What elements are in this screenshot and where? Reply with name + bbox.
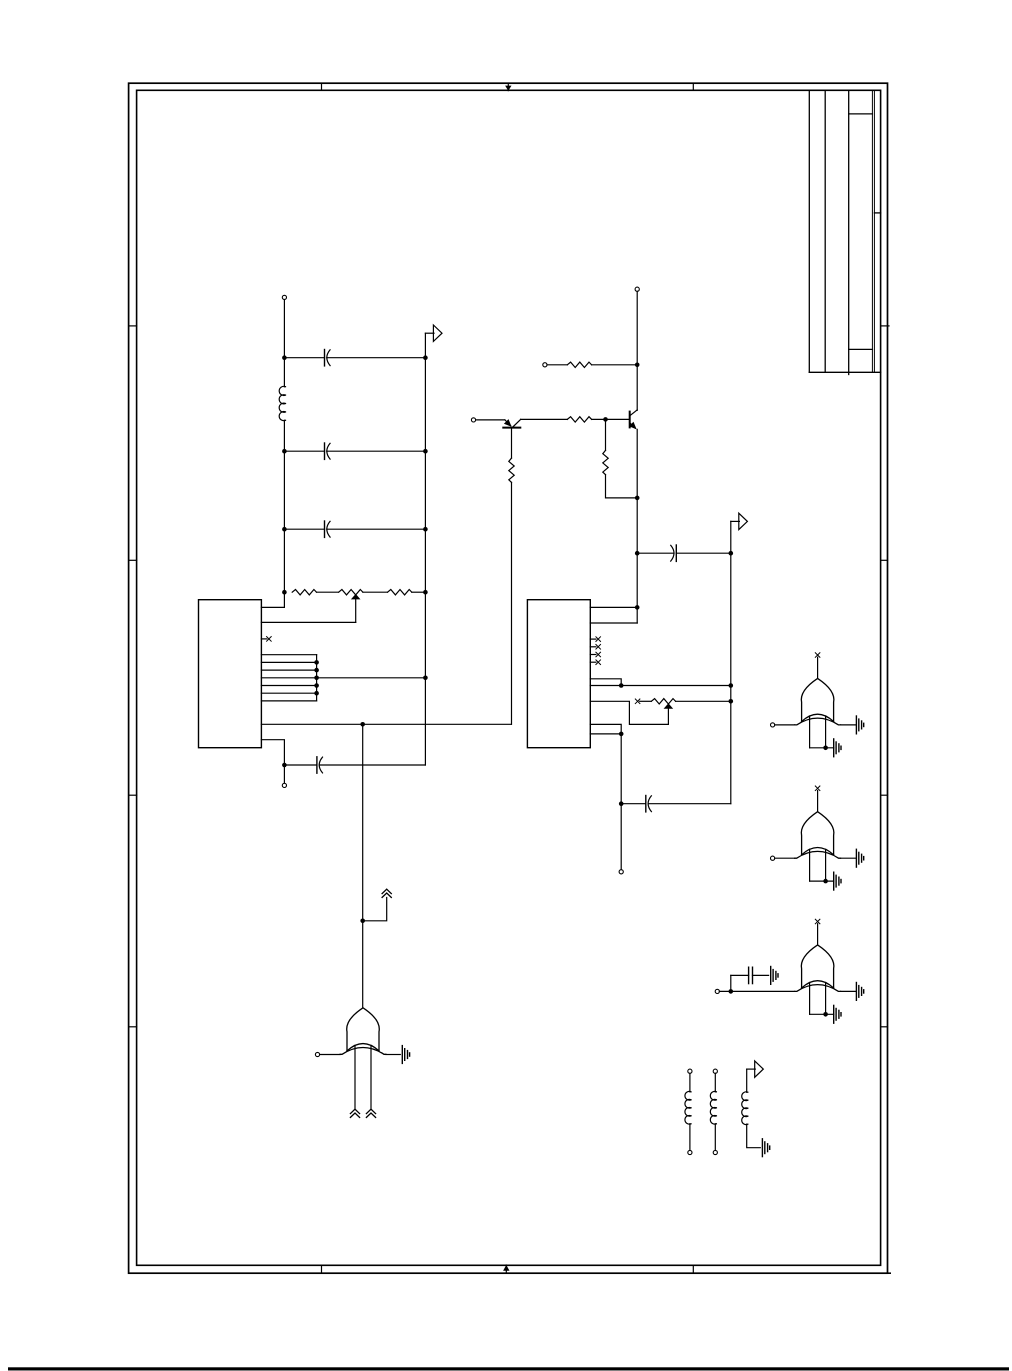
- wire: [412, 591, 426, 593]
- no-connect G4 output: [815, 919, 820, 945]
- wire: [676, 700, 731, 702]
- title block column line 3: [848, 90, 850, 372]
- wire: [606, 475, 638, 498]
- terminal L3 bottom: [713, 1150, 717, 1154]
- wire: [747, 1124, 761, 1148]
- wire: [363, 591, 388, 593]
- border zone tick right 1: [881, 325, 889, 327]
- wire rail: [636, 429, 638, 623]
- node dot: [282, 527, 287, 532]
- wire: [841, 990, 857, 992]
- wire: [320, 1054, 341, 1056]
- wire: [775, 724, 795, 726]
- node dot: [823, 1012, 828, 1017]
- node dot: [423, 590, 428, 595]
- node dot: [635, 605, 640, 610]
- wire U2 pin11: [590, 733, 621, 735]
- node dot: [619, 801, 624, 806]
- terminal J6: [471, 418, 475, 422]
- wire: [730, 975, 732, 991]
- resistor R1: [292, 590, 316, 595]
- transistor Q1: [503, 419, 520, 428]
- node dot: [423, 527, 428, 532]
- no-connect U2 nc4: [590, 660, 600, 665]
- node dot: [423, 449, 428, 454]
- capacitor C2: [284, 443, 330, 459]
- wire U2 pin10: [590, 724, 621, 734]
- node dot: [729, 699, 734, 704]
- ground G2 right: [856, 716, 863, 734]
- wire: [362, 921, 364, 1008]
- border zone tick left 4: [129, 1026, 137, 1028]
- wire: [841, 724, 857, 726]
- node dot: [314, 660, 319, 665]
- wire G1 input pin a: [354, 1045, 356, 1109]
- wire U2 pin7: [590, 679, 621, 686]
- power symbol VCC2: [363, 889, 392, 921]
- wire: [362, 724, 364, 921]
- resistor R6: [567, 417, 591, 422]
- border zone tick right 3: [881, 794, 888, 796]
- node dot: [729, 551, 734, 556]
- no-connect G3 output: [815, 786, 820, 812]
- resistor R3: [388, 590, 412, 595]
- resistor R4: [567, 362, 591, 367]
- wire: [511, 482, 513, 724]
- node dot: [314, 683, 319, 688]
- wire U1 pin12: [261, 740, 284, 765]
- wire G3 pins: [810, 849, 834, 881]
- node dot: [729, 989, 734, 994]
- IC U1: [199, 600, 262, 748]
- wire rail: [730, 521, 732, 803]
- title block divider a: [849, 113, 873, 115]
- wire: [327, 357, 426, 359]
- border zone tick right 4: [881, 1026, 888, 1028]
- wiper arrow R2: [351, 594, 361, 623]
- title block stub: [848, 372, 850, 374]
- terminal J1: [282, 295, 286, 299]
- IC U2: [527, 600, 590, 748]
- wire U1 pin11: [261, 723, 511, 725]
- node dot: [823, 879, 828, 884]
- wire: [689, 1073, 691, 1092]
- wire: [547, 364, 567, 366]
- title block column line 4: [871, 90, 873, 372]
- potentiometer R8: [651, 699, 675, 704]
- wire G2 pins: [810, 716, 834, 748]
- wire: [317, 677, 426, 679]
- ground C7: [771, 967, 778, 985]
- wire U1 pin2: [261, 621, 355, 623]
- node dot: [360, 919, 365, 924]
- wire: [283, 420, 285, 592]
- terminal J4: [635, 287, 639, 291]
- power chevrons a: [350, 1109, 359, 1117]
- wire: [317, 591, 339, 593]
- wire rail: [636, 291, 638, 410]
- no-connect U2 nc1: [590, 637, 600, 642]
- wire: [746, 1069, 748, 1092]
- terminal J8: [715, 989, 719, 993]
- ground G3 right: [856, 849, 863, 867]
- wire U1 data pins: [261, 655, 316, 701]
- no-connect G2 output: [815, 653, 820, 679]
- node dot: [823, 746, 828, 751]
- resistor R5: [509, 458, 514, 482]
- wire U2 pin9: [590, 701, 668, 724]
- inductor L3: [710, 1091, 716, 1124]
- wire: [620, 734, 622, 870]
- wire Q1 base: [511, 428, 513, 459]
- title block column line 2: [824, 90, 826, 372]
- capacitor C3: [284, 521, 330, 537]
- border zone tick bottom-left: [321, 1265, 323, 1273]
- node dot: [282, 590, 287, 595]
- border zone tick top-left: [321, 83, 323, 90]
- terminal J2: [282, 783, 286, 787]
- xor gate G1: [340, 1008, 386, 1055]
- ground G4 pins: [834, 1005, 841, 1023]
- ground GND L4: [762, 1139, 769, 1157]
- capacitor C5: [637, 545, 676, 561]
- transistor Q2: [629, 410, 637, 430]
- node dot: [314, 691, 319, 696]
- node dot: [619, 732, 624, 737]
- node dot: [423, 355, 428, 360]
- xor gate G2: [795, 678, 841, 725]
- inductor L4: [742, 1092, 748, 1125]
- wire: [327, 450, 426, 452]
- border zone tick left 2: [129, 559, 137, 561]
- wire: [714, 1073, 716, 1092]
- border zone tick left 1: [129, 325, 137, 327]
- wire U2 pin1: [590, 606, 637, 608]
- border center arrow bottom: [503, 1265, 509, 1273]
- sheet outer border: [129, 83, 888, 1273]
- no-connect R8 end: [635, 699, 651, 704]
- wire U1 pin1: [261, 592, 284, 607]
- border zone tick right 2: [881, 559, 888, 561]
- terminal L3 top: [713, 1069, 717, 1073]
- node dot: [729, 683, 734, 688]
- ground G3 pins: [834, 872, 841, 890]
- inductor L1: [279, 386, 285, 420]
- capacitor C1: [284, 350, 330, 366]
- node dot: [314, 676, 319, 681]
- wire: [605, 419, 607, 450]
- terminal L2 top: [688, 1069, 692, 1073]
- terminal J7: [619, 870, 623, 874]
- no-connect U1 pin3: [261, 637, 271, 642]
- wire: [521, 418, 568, 420]
- border center arrow top: [505, 83, 511, 91]
- wire: [592, 418, 630, 420]
- wire: [719, 990, 794, 992]
- terminal G2: [771, 723, 775, 727]
- wire: [648, 803, 731, 805]
- ground G2 pins: [834, 739, 841, 757]
- node dot: [603, 417, 608, 422]
- wire rail: [424, 333, 426, 765]
- wiper arrow R8: [664, 703, 674, 709]
- wire: [841, 857, 857, 859]
- node dot: [282, 449, 287, 454]
- terminal J3: [315, 1052, 319, 1056]
- wire G1 input pin b: [370, 1045, 372, 1109]
- wire G4 pins: [810, 983, 834, 1015]
- title block divider b: [849, 348, 873, 350]
- power flag VCC1: [425, 325, 442, 341]
- power flag VCC4: [747, 1061, 764, 1077]
- potentiometer R2: [339, 590, 363, 595]
- wire: [283, 765, 285, 783]
- node dot: [635, 363, 640, 368]
- xor gate G3: [795, 812, 841, 859]
- node dot: [360, 722, 365, 727]
- wire U2 pin2: [590, 622, 637, 624]
- ground G4 right: [856, 983, 863, 1001]
- wire: [676, 552, 731, 554]
- inductor L2: [685, 1091, 691, 1124]
- terminal J5: [543, 363, 547, 367]
- node dot: [635, 551, 640, 556]
- sheet inner border: [137, 90, 881, 1265]
- resistor R7: [603, 450, 608, 474]
- wire: [775, 857, 795, 859]
- wire: [327, 528, 426, 530]
- wire: [689, 1124, 691, 1151]
- wire: [319, 764, 425, 766]
- node dot: [619, 683, 624, 688]
- power flag VCC3: [731, 513, 748, 529]
- node dot: [423, 676, 428, 681]
- node dot: [635, 496, 640, 501]
- no-connect U2 nc3: [590, 652, 600, 657]
- title block column line 1: [808, 90, 810, 372]
- title block divider c: [874, 212, 880, 214]
- capacitor C6: [621, 796, 651, 812]
- ground GND1: [402, 1046, 409, 1064]
- border corner tail: [888, 1272, 891, 1274]
- capacitor C4: [284, 757, 322, 773]
- wire: [283, 300, 285, 387]
- terminal G3: [771, 856, 775, 860]
- border zone tick left 3: [129, 794, 137, 796]
- border zone tick top-right: [692, 83, 694, 90]
- xor gate G4: [795, 945, 841, 992]
- wire: [592, 364, 638, 366]
- no-connect U2 nc2: [590, 645, 600, 650]
- power chevrons b: [366, 1109, 375, 1117]
- wire: [386, 1054, 400, 1056]
- wire: [714, 1124, 716, 1151]
- node dot: [282, 355, 287, 360]
- node dot: [282, 763, 287, 768]
- wire U2 pin8: [590, 685, 731, 687]
- capacitor C7: [731, 967, 769, 983]
- page footer rule: [8, 1367, 1009, 1370]
- border zone tick bottom-right: [692, 1265, 694, 1273]
- title block bottom line: [809, 371, 880, 373]
- wire: [476, 419, 505, 421]
- title block column line 5: [873, 90, 875, 372]
- node dot: [314, 668, 319, 673]
- terminal L2 bottom: [688, 1150, 692, 1154]
